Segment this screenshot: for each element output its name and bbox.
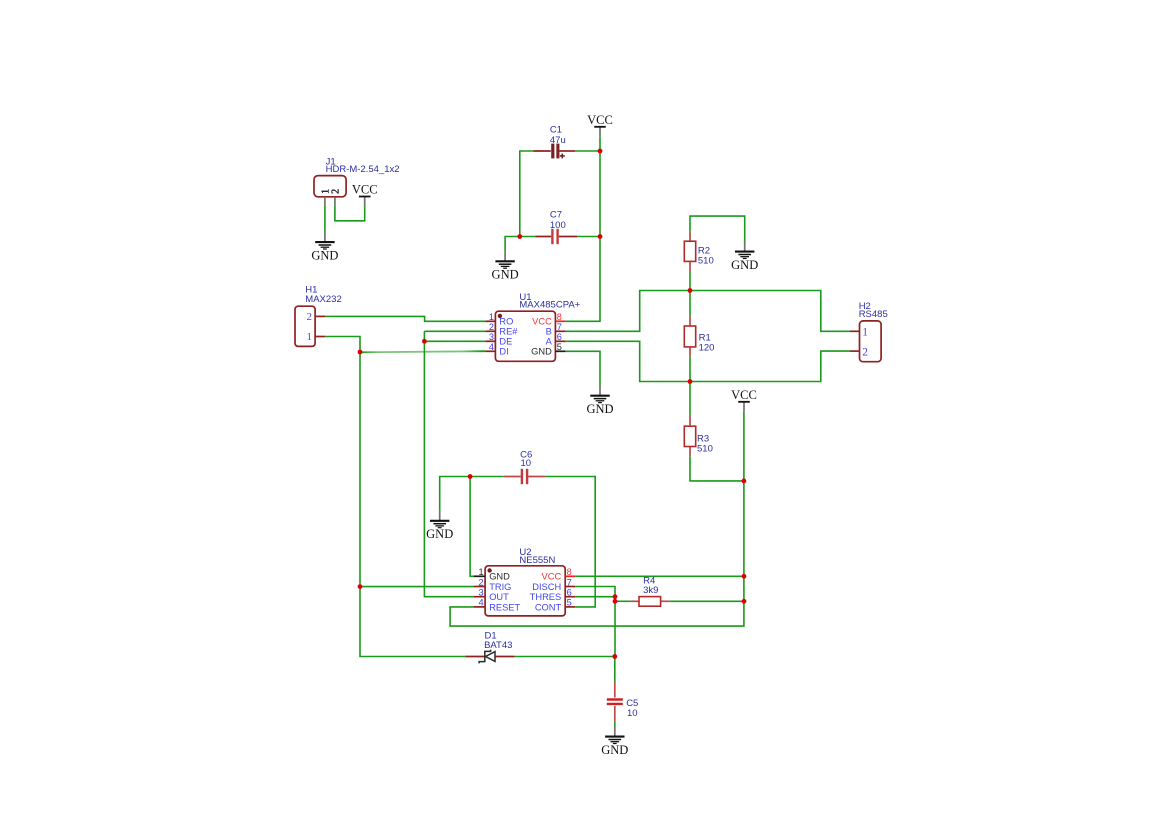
U2 pin-1 marker dot [487,568,491,572]
svg-text:1: 1 [307,331,313,343]
diode D1 BAT43 schottky [465,650,514,664]
ground symbol near R2 [731,242,758,272]
wire net B from U1 pin7 to H2 pin1 [565,291,850,332]
resistor R2 510 [684,231,695,271]
ground symbol near C7 [492,251,519,281]
svg-text:MAX232: MAX232 [305,294,341,305]
wire C1 right segment to VCC vertical [575,150,600,152]
junction DI node [358,350,363,355]
svg-text:10: 10 [627,708,638,719]
svg-text:THRES: THRES [530,592,562,602]
wire TRIG horizontal to U2 pin2 [360,586,474,588]
svg-text:100: 100 [550,220,566,231]
junction C6 left node [468,474,473,479]
svg-text:5: 5 [557,342,562,352]
capacitor C6 10 [504,469,545,484]
svg-text:VCC: VCC [542,572,562,582]
connector H2 RS485 [850,321,881,362]
ground symbol near C6 [426,511,453,541]
junction R4 right node [742,599,747,604]
svg-text:RESET: RESET [489,602,520,612]
H2 pin 2 stub [850,350,860,352]
wire R4 right to VCC rail [670,600,744,602]
svg-text:RS485: RS485 [859,309,888,320]
wire faded to U1 pin4 DI [360,351,485,352]
svg-text:C7: C7 [550,209,562,220]
ground symbol below U1 [586,386,613,416]
svg-text:GND: GND [531,347,552,357]
junction R4 left node [613,599,618,604]
H2 pin 1 stub [850,330,860,332]
resistor R3 510 [684,416,695,457]
capacitor C7 100 [535,229,577,244]
junction C7 left [517,234,522,239]
svg-text:DI: DI [499,347,508,357]
wire VCC rail down to RESET [450,411,744,626]
wire R2 bottom to R1 top [689,272,691,317]
svg-text:1: 1 [478,567,483,577]
IC U2 NE555N [474,566,576,616]
svg-text:120: 120 [699,342,715,353]
IC U1 MAX485CPA+ [485,311,565,361]
junction R2/R1 node [688,288,693,293]
svg-text:HDR-M-2.54_1x2: HDR-M-2.54_1x2 [326,164,400,175]
svg-text:NE555N: NE555N [519,555,555,566]
wire U2 pin5 CONT up to C6 [545,477,595,607]
svg-text:3: 3 [478,588,483,598]
svg-text:2: 2 [478,577,483,587]
svg-text:510: 510 [697,443,713,454]
resistor R4 3k9 [631,597,670,607]
wire J1 pin2 to VCC [335,206,365,221]
svg-text:OUT: OUT [489,592,509,602]
svg-text:4: 4 [478,598,483,608]
capacitor C1 47u polarized [534,144,576,159]
J1 pin 1 stub [324,197,326,206]
svg-text:510: 510 [698,255,714,266]
wire D1 right to C5 node [515,656,615,658]
svg-text:4: 4 [489,342,494,352]
wire R2 top to GND [690,216,745,241]
H1 pin 1 stub [315,336,325,338]
svg-text:C1: C1 [550,125,562,136]
svg-text:1: 1 [862,327,868,339]
wire C7 right segment [577,236,600,238]
svg-text:VCC: VCC [532,317,552,327]
wire C6 node down to U2 pin1 GND [470,477,474,577]
wire node to D1 left via TRIG vertical [360,352,465,657]
wire C5 node down to cap [614,657,616,682]
power symbol VCC top [587,113,613,136]
wire C5 bottom to GND [614,721,616,726]
svg-text:DISCH: DISCH [532,582,561,592]
U2 pin stubs 1-4 left [474,575,486,577]
wire RE# horizontal to U1 pin2 [424,330,485,332]
svg-text:RE#: RE# [499,327,518,337]
svg-text:2: 2 [489,322,494,332]
svg-text:TRIG: TRIG [489,582,511,592]
junction TRIG node [358,584,363,589]
junction C7 right [598,234,603,239]
wire net A from U1 pin6 to H2 pin2 [565,341,850,381]
svg-text:7: 7 [567,577,572,587]
H1 pin 2 stub [315,315,325,317]
junction R3/VCC rail [742,479,747,484]
svg-text:A: A [546,337,553,347]
capacitor C5 10 [607,682,623,722]
wire C6 left segment [440,477,504,511]
svg-text:6: 6 [567,588,572,598]
junction THRES node [613,594,618,599]
U1 pin-1 marker dot [498,314,502,318]
wire H1 pin2 to U1 pin1 RO [325,316,485,321]
svg-text:7: 7 [557,322,562,332]
wire R3 bottom to VCC vertical [690,456,744,481]
svg-text:2: 2 [307,311,313,323]
ground symbol near J1 [311,232,338,262]
svg-text:2: 2 [862,346,868,358]
ground symbol below C5 [601,727,628,757]
resistor R1 120 [684,316,695,356]
wire U2 pin7 DISCH to vertical [575,587,615,657]
junction U2 VCC node [742,574,747,579]
wire H1 pin1 down to node [325,337,360,353]
svg-text:8: 8 [557,312,562,322]
svg-text:BAT43: BAT43 [484,640,512,651]
wire U1 pin5 GND drop [565,351,600,385]
svg-text:DE: DE [499,337,512,347]
connector J1 HDR-M-2.54_1x2 [314,176,346,206]
junction R1/R3 node [688,379,693,384]
svg-text:10: 10 [521,458,532,469]
svg-text:1: 1 [489,312,494,322]
svg-text:2: 2 [330,189,341,194]
U2 pin stubs 8-5 right [565,575,575,577]
wire C7 row from GND corner to cap [505,237,535,252]
wire R1 bottom to R3 top [689,356,691,415]
wire C1 left segment to corner [520,151,534,237]
svg-text:MAX485CPA+: MAX485CPA+ [519,300,580,311]
junction D1/C5 node [612,654,617,659]
junction DE node [422,339,427,344]
J1 pin 2 stub [334,197,336,206]
wire U2 pin8 VCC [575,575,744,577]
wire VCC vertical from VCC symbol to U1 pin8 [565,136,600,321]
svg-text:RO: RO [499,317,513,327]
U1 pin stubs 1-4 left [485,320,495,322]
U1 pin stubs 8-5 right [555,320,565,322]
svg-text:5: 5 [567,598,572,608]
power symbol VCC near J1 [352,183,378,206]
svg-text:3k9: 3k9 [643,585,658,596]
svg-text:6: 6 [557,332,562,342]
svg-text:CONT: CONT [535,602,562,612]
svg-text:8: 8 [567,567,572,577]
svg-text:GND: GND [489,572,510,582]
wire R4 left [615,600,631,602]
power symbol VCC mid right [731,388,757,411]
wire J1 pin1 to GND [324,206,326,232]
svg-text:3: 3 [489,332,494,342]
connector H1 MAX232 [295,306,325,346]
junction C1 right [598,149,603,154]
wire U2 pin6 THRES [575,596,615,598]
wire RE#/DE/OUT vertical [424,331,473,596]
svg-text:47u: 47u [550,135,566,146]
svg-text:B: B [546,327,552,337]
wire DE horizontal to U1 pin3 [424,340,485,342]
